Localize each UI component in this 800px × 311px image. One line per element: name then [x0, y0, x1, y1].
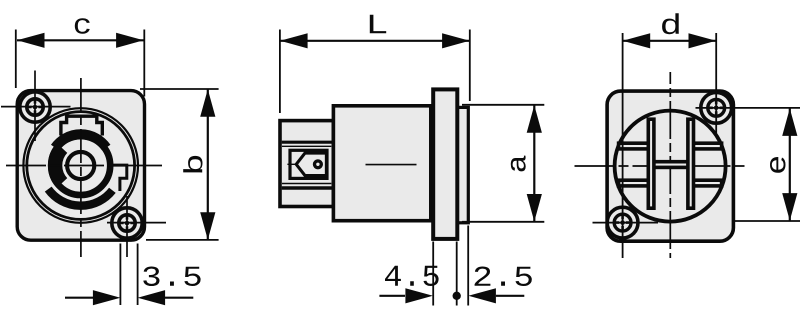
shell circle (rear) — [615, 111, 726, 222]
terminal bar left — [648, 119, 654, 208]
crossbar — [652, 162, 690, 168]
dimension 3.5 : dimension line + arrows — [65, 297, 93, 299]
dimension e : arrowheads — [782, 108, 797, 135]
screw TL centerlines — [1, 106, 71, 108]
mounting flange plate (side) — [433, 89, 457, 239]
centerline horizontal (left view) — [6, 165, 164, 167]
terminal arm top-left — [619, 143, 649, 149]
label 4.5 — [385, 266, 439, 286]
dimension 4.5 / 2.5 : extension lines — [432, 242, 434, 306]
dimension 4.5 : tail + arrow — [379, 295, 405, 297]
dimension d : arrowheads — [623, 33, 651, 48]
dimension L : arrowheads — [280, 33, 308, 48]
screw hole bottom-right — [112, 208, 142, 238]
terminal arm bottom-right — [693, 180, 722, 186]
dimension 2.5 : arrow + tail — [468, 288, 496, 303]
label c — [75, 18, 90, 34]
main body — [333, 106, 430, 221]
housing detail line upper — [282, 141, 332, 144]
terminal window — [290, 150, 327, 178]
body centerline dash — [366, 164, 417, 166]
contact symbol tick — [287, 163, 296, 165]
dimension a : arrowheads — [527, 105, 542, 133]
screw hole top-left — [20, 92, 50, 122]
centerline vertical (left view) — [80, 78, 82, 257]
label a — [511, 156, 526, 172]
dimension d : dimension line — [623, 40, 716, 42]
flange plate (front view) — [17, 91, 144, 241]
keyway tab (top) — [61, 116, 102, 135]
screw TR horizontal centerline / e top extension — [696, 107, 800, 109]
dimension c : extension lines — [15, 30, 17, 89]
centerline vertical (right view) — [669, 72, 671, 258]
rear housing (cable end box) — [280, 121, 333, 207]
housing detail thin line lower — [282, 183, 331, 185]
locking collar ring — [51, 136, 110, 195]
dimension b : extension lines — [140, 88, 219, 90]
label 2.5 — [475, 267, 532, 287]
centerline horizontal (right view) — [575, 165, 747, 167]
terminal bar right — [688, 119, 694, 208]
junction dot — [453, 292, 461, 300]
dimension c : arrowheads — [17, 33, 45, 48]
dimension L : dimension line — [280, 40, 470, 42]
screw BL horizontal centerline — [593, 222, 659, 224]
dimension b : arrowheads — [200, 89, 215, 117]
housing detail thin line upper — [282, 145, 331, 147]
left lug arc — [55, 148, 62, 183]
dimension a : extension lines — [462, 104, 544, 106]
terminal arm bottom-left — [619, 180, 649, 186]
dimension c : dimension line — [17, 39, 144, 41]
label L — [370, 15, 386, 34]
dimension 3.5 : extension lines — [119, 244, 121, 306]
housing detail line lower — [282, 186, 332, 189]
e bottom extension — [735, 220, 800, 222]
contact symbol donut — [315, 161, 322, 168]
dimension a : dimension line — [533, 105, 535, 221]
collar top thick arc — [55, 134, 106, 147]
dimension e : dimension line — [789, 108, 791, 220]
screw BL vertical centerline / d extension — [622, 33, 624, 258]
bottom release arc — [48, 189, 112, 206]
dimension b : dimension line — [207, 89, 209, 240]
label b — [183, 156, 202, 173]
contact symbol banner — [296, 153, 326, 176]
label 3.5 — [143, 267, 200, 287]
rear stub — [455, 107, 468, 222]
label d — [662, 13, 679, 34]
label e — [770, 157, 786, 173]
terminal arm top-right — [693, 143, 722, 149]
screw BR centerlines — [107, 222, 166, 224]
screw hole bottom-left — [607, 207, 638, 238]
screw TR vertical centerline / d extension — [715, 33, 717, 136]
shell opening inner circle — [27, 112, 135, 220]
shell opening outer circle — [23, 108, 138, 223]
latch notch (right side) — [107, 165, 127, 191]
flange plate (rear view) — [607, 91, 733, 241]
screw hole top-right — [701, 92, 732, 123]
dimension L : extension lines — [279, 30, 281, 114]
center bushing ring — [67, 152, 94, 179]
